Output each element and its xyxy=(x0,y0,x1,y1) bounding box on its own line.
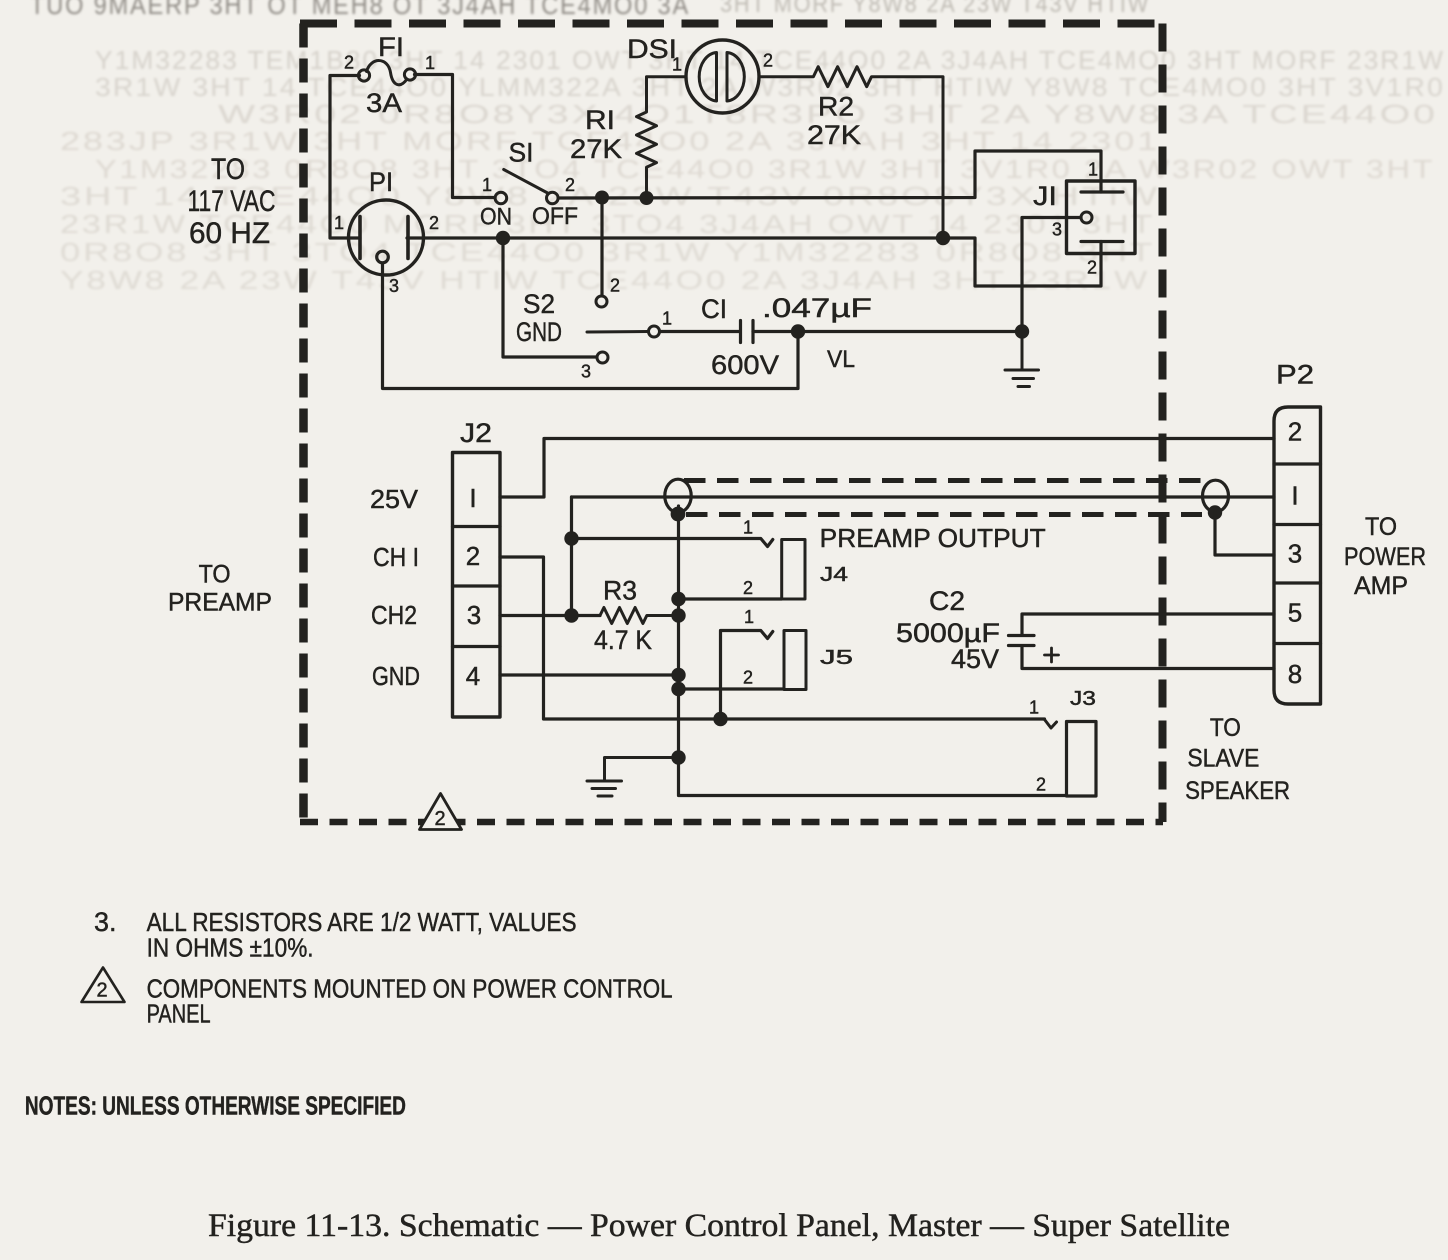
shielded preamp output wire to P2 pin 1 xyxy=(572,495,1275,498)
svg-text:2: 2 xyxy=(1288,417,1302,447)
svg-text:SLAVE: SLAVE xyxy=(1187,745,1259,773)
svg-text:5: 5 xyxy=(1288,598,1302,628)
svg-text:J5: J5 xyxy=(820,647,853,669)
connector J1 body xyxy=(1067,181,1136,254)
wire from J2 pin 2 (CH1) down and right to J3 pin 1 xyxy=(500,557,1045,719)
pilot lamp DS1 xyxy=(686,40,759,113)
svg-text:1: 1 xyxy=(482,175,492,195)
J3 pin 1 tip-contact notch xyxy=(1045,720,1057,729)
switch S2 blade xyxy=(587,330,648,334)
svg-text:J2: J2 xyxy=(460,418,492,448)
connector P1 (AC plug) xyxy=(349,200,424,275)
svg-text:2: 2 xyxy=(743,578,753,598)
svg-text:PREAMP OUTPUT: PREAMP OUTPUT xyxy=(820,523,1046,553)
svg-text:Y1M32283 0R8O8 3HT 3TO4 TCE44O: Y1M32283 0R8O8 3HT 3TO4 TCE44O0 3R1W 3HT… xyxy=(95,154,1435,184)
junction node: S2 pole tap on S1 output wire xyxy=(595,191,609,205)
junction node: C1 output / P1 pin 3 return xyxy=(791,324,805,338)
jack J5 body xyxy=(784,631,806,690)
svg-text:1: 1 xyxy=(743,518,753,538)
cable shield loop (left) xyxy=(665,479,691,512)
wire from S2 pin 1 to C1 left plate xyxy=(660,330,740,333)
svg-text:CH I: CH I xyxy=(373,542,419,572)
svg-text:600V: 600V xyxy=(711,350,779,380)
svg-text:3: 3 xyxy=(1052,220,1062,240)
svg-text:POWER: POWER xyxy=(1344,543,1426,571)
switch S2 pin 3 terminal xyxy=(597,352,608,363)
svg-text:SI: SI xyxy=(509,138,534,168)
J1 pin 3 terminal xyxy=(1081,212,1092,223)
wire from bus to J5 pin 2 xyxy=(679,687,785,690)
svg-text:I: I xyxy=(1291,481,1298,511)
junction node: S2 pin 3 tap on AC neutral wire xyxy=(496,231,510,245)
svg-text:JI: JI xyxy=(1033,181,1057,211)
svg-text:2: 2 xyxy=(565,175,575,195)
svg-text:27K: 27K xyxy=(807,120,861,150)
svg-text:CH2: CH2 xyxy=(371,600,417,630)
center bus wire from shield dot down to J3 pin 2 xyxy=(679,506,1067,796)
svg-text:.047µF: .047µF xyxy=(762,293,872,323)
wire from bus to J4 pin 2 xyxy=(679,597,782,600)
svg-text:CI: CI xyxy=(701,294,727,324)
svg-text:4: 4 xyxy=(466,661,480,691)
junction node: R3 right on bus xyxy=(671,608,685,622)
J1 pin 1 contact bar xyxy=(1081,190,1123,193)
svg-text:DSI: DSI xyxy=(627,34,677,64)
jack J4 body xyxy=(782,540,805,600)
svg-text:SPEAKER: SPEAKER xyxy=(1185,777,1290,805)
wire from AC neutral node down/right to S2 pin 3 xyxy=(503,238,597,357)
jack J3 body xyxy=(1067,722,1097,797)
svg-text:Figure 11-13. Schematic — Pow: Figure 11-13. Schematic — Power Control … xyxy=(208,1208,1230,1244)
svg-text:2: 2 xyxy=(763,51,773,71)
svg-text:J4: J4 xyxy=(820,564,848,586)
connector P2 body with 5 cells xyxy=(1274,407,1321,704)
svg-text:1: 1 xyxy=(662,309,672,329)
svg-text:45V: 45V xyxy=(951,644,999,674)
svg-text:2: 2 xyxy=(434,808,445,830)
svg-text:3A: 3A xyxy=(366,88,402,118)
shield connection dot (left) xyxy=(671,507,686,522)
svg-text:2: 2 xyxy=(344,53,354,73)
power control panel dashed border (left) xyxy=(299,24,308,823)
svg-text:IN OHMS ±10%.: IN OHMS ±10%. xyxy=(147,933,314,963)
svg-text:1: 1 xyxy=(672,55,682,75)
junction node: J4 pin 1 tap xyxy=(564,531,578,545)
svg-text:OFF: OFF xyxy=(532,203,578,230)
svg-text:3: 3 xyxy=(1288,539,1302,569)
svg-text:C2: C2 xyxy=(929,586,965,616)
switch S1 blade xyxy=(504,170,548,194)
switch S1 pin 1 terminal xyxy=(495,192,507,204)
C2 polarity plus sign xyxy=(1045,648,1059,662)
dashed shield line (bottom) xyxy=(686,512,1202,517)
svg-text:1: 1 xyxy=(1029,698,1039,718)
svg-text:8: 8 xyxy=(1288,659,1302,689)
fuse F1 symbol xyxy=(358,61,415,85)
svg-text:GND: GND xyxy=(372,661,420,691)
svg-text:Y8W8 2A 23W T43V HTIW TCE44O0: Y8W8 2A 23W T43V HTIW TCE44O0 2A 3J4AH 3… xyxy=(60,265,1150,295)
wire from J1 pin 3 down to ground node xyxy=(1022,218,1081,332)
svg-text:2: 2 xyxy=(96,980,107,1002)
wire from P1 pin 3 along bottom up to C1 output node xyxy=(383,263,799,389)
connector J2 body with 4 cells xyxy=(453,453,501,718)
resistor R2 27K (horizontal zigzag) with leads to J1 area xyxy=(759,67,943,238)
J1 pin 2 contact bar xyxy=(1081,240,1123,243)
junction node: J1 pin 3 / C1 / ground xyxy=(1015,324,1029,338)
wire from S2 pole node down to S2 pin 2 xyxy=(600,198,603,296)
wire J5 pin 1 with notch, down to CH1 wire xyxy=(721,631,773,720)
resistor R3 4.7K (horizontal zigzag) xyxy=(600,608,679,624)
svg-text:AMP: AMP xyxy=(1354,572,1408,600)
junction node: J5 pin 2 on bus xyxy=(671,682,685,696)
power control panel dashed border (bottom) xyxy=(300,819,1163,826)
svg-text:S2: S2 xyxy=(523,289,555,319)
svg-text:TO: TO xyxy=(1365,513,1397,541)
svg-text:3: 3 xyxy=(467,600,481,630)
svg-text:4.7 K: 4.7 K xyxy=(594,625,652,655)
svg-text:2: 2 xyxy=(466,541,480,571)
svg-text:3HT MORF Y8W8 2A 23W T43V HTIW: 3HT MORF Y8W8 2A 23W T43V HTIW xyxy=(720,0,1150,18)
svg-text:PI: PI xyxy=(369,167,393,197)
wire from C1 right plate to J1 pin 3 ground node xyxy=(753,330,1022,333)
svg-text:3: 3 xyxy=(389,276,399,296)
svg-text:1: 1 xyxy=(1088,160,1098,180)
svg-text:3.: 3. xyxy=(94,907,117,937)
wire from fuse F1 pin 2 down-left to P1 pin 1 xyxy=(330,76,360,239)
switch S1 pin 2 terminal xyxy=(547,192,559,204)
svg-text:TO: TO xyxy=(211,153,245,186)
svg-text:TO: TO xyxy=(1210,714,1241,742)
svg-text:2: 2 xyxy=(1036,775,1046,795)
svg-text:VL: VL xyxy=(827,346,855,373)
svg-text:NOTES: UNLESS OTHERWISE SPECIF: NOTES: UNLESS OTHERWISE SPECIFIED xyxy=(25,1091,406,1121)
svg-text:FI: FI xyxy=(378,32,404,62)
svg-text:J3: J3 xyxy=(1070,688,1096,710)
wire from fuse F1 pin 1 down-right to S1 pin 1 xyxy=(415,75,496,198)
svg-text:27K: 27K xyxy=(570,134,622,164)
svg-text:117 VAC: 117 VAC xyxy=(188,185,276,218)
ground symbol (chassis, near J1) xyxy=(1005,332,1039,387)
wire from tap node to J4 pin 1 with tip-contact notch xyxy=(572,539,773,547)
junction node: J5 pin 1 on CH1 wire xyxy=(713,712,727,726)
capacitor C1 plates xyxy=(741,321,754,343)
note flag triangle 2 xyxy=(82,968,125,1003)
flag note triangle 2 on panel border xyxy=(420,794,462,830)
svg-text:3: 3 xyxy=(581,362,591,382)
power control panel dashed border (right) xyxy=(1159,24,1167,823)
svg-text:1: 1 xyxy=(425,53,435,73)
svg-text:P2: P2 xyxy=(1276,360,1314,390)
svg-text:2: 2 xyxy=(743,668,753,688)
cable shield loop (right) xyxy=(1203,480,1229,512)
junction node: J4 pin 2 on bus xyxy=(671,592,685,606)
svg-text:1: 1 xyxy=(334,213,344,233)
svg-text:PREAMP: PREAMP xyxy=(168,589,272,617)
wire (AC hot) from S1 pin 2 right then to J1 pin 1 xyxy=(558,151,1101,198)
capacitor C2 plates xyxy=(1009,636,1035,646)
svg-text:GND: GND xyxy=(516,317,562,347)
junction node: R1 tap on S1 output wire xyxy=(640,191,654,205)
wire from J2 pin 1 (25V) to P2 pin 2 xyxy=(500,439,1274,498)
junction node: ground tap on bus xyxy=(671,750,685,764)
switch S2 pin 2 terminal xyxy=(596,296,607,307)
junction node: J2 GND on bus xyxy=(671,668,685,682)
wire from J2 pin 4 (GND) to center bus xyxy=(500,673,679,676)
wire from J2 pin 3 (CH2) to R3 left lead xyxy=(500,614,600,617)
power control panel dashed border (top) xyxy=(300,20,1163,28)
svg-text:2: 2 xyxy=(1087,258,1097,278)
wire from right shield dot to P2 pin 3 xyxy=(1215,513,1274,556)
svg-text:2: 2 xyxy=(429,213,439,233)
svg-text:RI: RI xyxy=(585,105,615,135)
junction node: R2 tap on AC neutral wire xyxy=(936,231,950,245)
svg-text:ON: ON xyxy=(480,204,512,231)
wire from preamp-output corner down across R3 node xyxy=(570,497,573,616)
wire from C2 positive plate to P2 pin 5 xyxy=(1022,614,1274,635)
svg-text:TUO 9MAERP 3HT OT MEH8 OT 3J4A: TUO 9MAERP 3HT OT MEH8 OT 3J4AH TCE4MO0 … xyxy=(30,0,690,20)
resistor R1 27K (vertical zigzag) with leads xyxy=(637,77,687,198)
faint show-through text from reverse of page xyxy=(30,0,1445,295)
wire from C2 negative plate to P2 pin 8 xyxy=(1022,646,1274,669)
svg-text:60 HZ: 60 HZ xyxy=(189,217,270,250)
svg-text:PANEL: PANEL xyxy=(147,999,211,1029)
switch S2 pin 1 terminal xyxy=(649,326,660,337)
dashed shield line (top) xyxy=(684,478,1204,483)
wire (AC neutral) from P1 pin 2 right then to J1 pin 2 xyxy=(407,238,1101,286)
svg-text:R2: R2 xyxy=(818,92,854,122)
junction node: R3 left / CH2 xyxy=(564,608,578,622)
svg-text:25V: 25V xyxy=(370,484,419,514)
svg-text:I: I xyxy=(469,483,476,513)
svg-text:TO: TO xyxy=(199,561,231,589)
svg-text:R3: R3 xyxy=(603,576,637,606)
svg-text:2: 2 xyxy=(610,276,620,296)
svg-text:1: 1 xyxy=(744,607,754,627)
ground symbol (signal, below bus) xyxy=(587,758,679,797)
shield connection dot (right) xyxy=(1208,505,1222,519)
svg-text:COMPONENTS MOUNTED ON POWER: COMPONENTS MOUNTED ON POWER CONTROL xyxy=(147,974,673,1004)
